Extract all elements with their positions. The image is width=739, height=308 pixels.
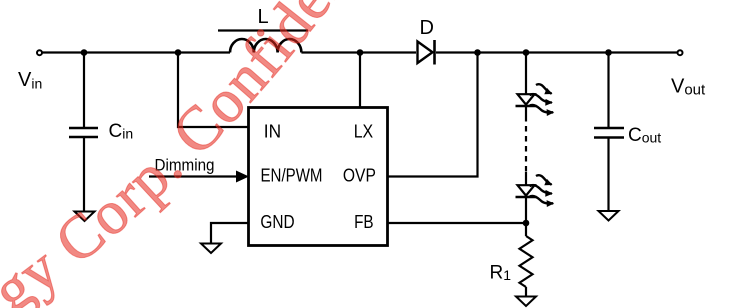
svg-text:Cout: Cout	[628, 125, 661, 146]
wire node IN branch vertical	[178, 52, 249, 127]
LED D1 triangle	[518, 94, 535, 104]
LED D1 light arrow 2	[530, 94, 552, 102]
wire rail inductor to diode	[301, 51, 416, 53]
node junction IN branch	[175, 49, 182, 56]
LED D1 light arrow 1	[536, 84, 552, 93]
node junction OVP branch	[474, 49, 481, 56]
LED D2 light arrow 3	[529, 196, 553, 203]
capacitor Cin plates	[69, 128, 98, 137]
node junction Vin/Cin	[81, 49, 88, 56]
node junction Cout branch	[605, 49, 612, 56]
terminal Vin	[37, 50, 42, 55]
node junction LED string	[523, 49, 530, 56]
svg-text:EN/PWM: EN/PWM	[261, 165, 323, 185]
LED D2 light arrow 1	[536, 175, 552, 184]
wire Cout branch upper	[607, 52, 609, 128]
svg-text:IN: IN	[264, 122, 281, 142]
wire LED string top	[525, 52, 527, 94]
wire rail diode to Vout terminal	[436, 51, 678, 53]
diode D triangle	[418, 42, 433, 64]
wire Cin branch lower	[83, 137, 85, 212]
Dimming arrowhead	[236, 171, 249, 183]
wire LED1 to dashed	[525, 106, 527, 116]
wire GND pin to ground	[211, 223, 249, 244]
wire R1 to ground	[525, 287, 527, 297]
LED D2 cathode bar	[516, 196, 537, 198]
svg-text:Vout: Vout	[671, 76, 706, 99]
LED D2 triangle	[518, 185, 535, 195]
node junction FB/R1	[523, 220, 530, 227]
ground symbol R1	[516, 297, 536, 307]
svg-text:D: D	[420, 17, 434, 39]
svg-text:LX: LX	[354, 122, 374, 142]
wire Cin branch upper	[83, 52, 85, 128]
wire dashed to LED2	[525, 172, 527, 185]
inductor L1 coil	[230, 39, 301, 53]
ground symbol Cin	[75, 212, 95, 222]
svg-text:R1: R1	[490, 263, 512, 284]
svg-text:OVP: OVP	[343, 165, 376, 185]
wire OVP branch	[388, 52, 478, 177]
inductor L1 bar	[218, 29, 308, 31]
LED D2 light arrow 2	[530, 185, 552, 193]
wire dashed LED series continuation	[525, 116, 527, 172]
ground symbol Cout	[599, 211, 619, 221]
wire Cout branch lower	[607, 138, 609, 212]
wire top rail input segment	[42, 51, 230, 53]
LED D1 light arrow 3	[529, 105, 553, 112]
terminal Vout	[678, 50, 683, 55]
IC U1 boost LED driver box	[249, 108, 388, 246]
svg-text:FB: FB	[354, 212, 374, 232]
diode D cathode bar	[433, 40, 436, 65]
wire FB branch	[388, 222, 526, 224]
svg-text:Cin: Cin	[109, 121, 134, 142]
svg-text:Vin: Vin	[18, 69, 42, 92]
wire Dimming line	[149, 175, 238, 177]
ground symbol GND pin	[201, 244, 221, 254]
resistor R1 zigzag	[520, 236, 533, 287]
wire LX branch vertical	[359, 52, 361, 107]
wire LED2 to FB node	[525, 197, 527, 236]
svg-text:GND: GND	[260, 212, 294, 232]
node junction LX branch	[357, 49, 364, 56]
LED D1 cathode bar	[516, 105, 537, 107]
capacitor Cout plates	[594, 128, 624, 138]
